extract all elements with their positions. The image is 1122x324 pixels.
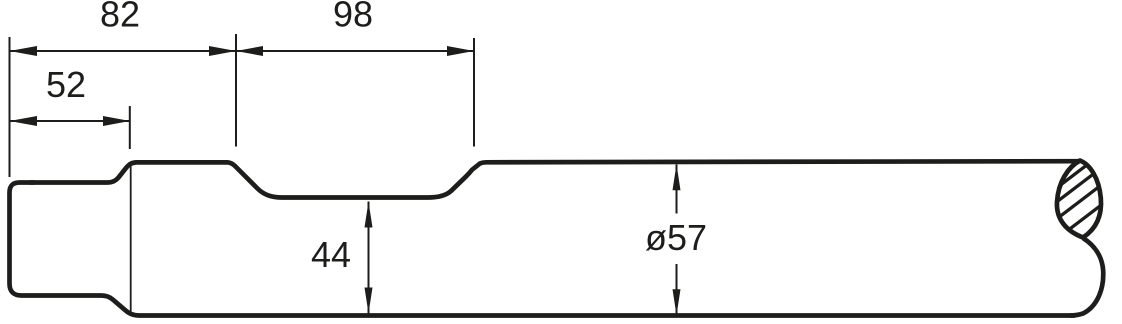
dimension line 52 xyxy=(10,120,131,122)
98 right arrow xyxy=(447,46,474,56)
svg-text:52: 52 xyxy=(46,64,86,105)
arrowheads xyxy=(10,46,681,315)
tool body bottom/left outline xyxy=(10,183,1076,316)
52 right arrow xyxy=(103,116,130,126)
svg-text:82: 82 xyxy=(100,0,140,35)
82 right arrow xyxy=(209,46,236,56)
44 down arrow xyxy=(365,288,373,314)
82 left arrow xyxy=(10,46,38,56)
svg-text:44: 44 xyxy=(311,234,351,275)
dimension line 82/98 xyxy=(10,50,475,52)
dimension line 44 xyxy=(368,202,370,314)
ø57 up arrow xyxy=(673,164,681,190)
extension line for 52 at x=130 xyxy=(129,106,131,149)
52 left arrow xyxy=(10,116,38,126)
extension line x=236 xyxy=(235,34,237,147)
break S-curve and bottom-right corner xyxy=(1070,238,1103,316)
extension line left x=9.5 xyxy=(9,37,11,177)
svg-text:ø57: ø57 xyxy=(645,217,707,258)
dimension line ø57 (two segments) xyxy=(676,165,678,214)
98 left arrow xyxy=(236,46,263,56)
hatch lines in lens xyxy=(1040,144,1115,252)
thin edge line at step x=130 xyxy=(130,163,132,314)
extension line x=474 xyxy=(473,38,475,147)
svg-text:98: 98 xyxy=(333,0,373,35)
tool body outline xyxy=(30,161,1078,197)
break section lens (hatched ellipse) xyxy=(1057,161,1101,238)
ø57 down arrow xyxy=(673,289,681,315)
44 up arrow xyxy=(365,202,373,228)
